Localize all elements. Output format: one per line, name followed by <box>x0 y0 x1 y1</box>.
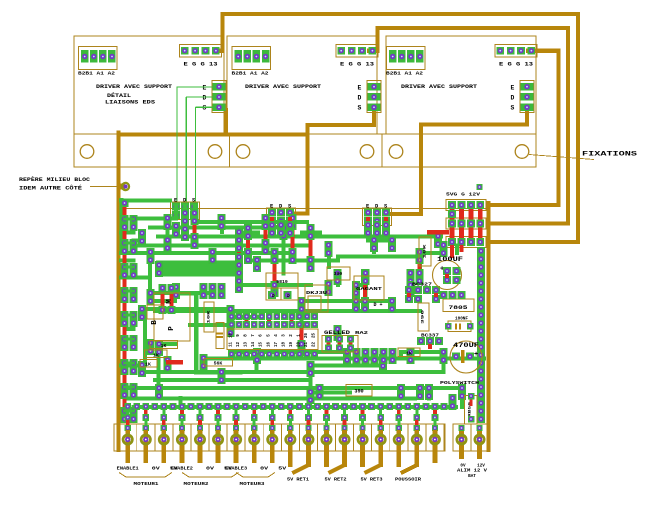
svg-text:22: 22 <box>313 342 317 348</box>
svg-text:MOTEUR1: MOTEUR1 <box>134 481 159 487</box>
svg-text:P: P <box>168 326 176 331</box>
pad column x=167.5 <box>164 214 172 372</box>
main board top edge <box>119 208 489 210</box>
note REPERE MILIEU BLOC <box>19 176 121 192</box>
pad column x=142 <box>138 229 146 377</box>
labels ENABLE 0V 5V for motor groups <box>117 467 287 472</box>
svg-text:S: S <box>203 105 207 112</box>
mounting hole 1 <box>80 145 94 159</box>
label DETAIL LIAISONS EDS <box>105 92 155 106</box>
svg-text:0V: 0V <box>152 467 161 472</box>
svg-text:IDEM AUTRE CÔTÉ: IDEM AUTRE CÔTÉ <box>19 185 82 192</box>
svg-text:470UF: 470UF <box>453 342 479 350</box>
pad column x=365 <box>361 269 369 313</box>
board pad group EDS1 <box>171 198 200 220</box>
svg-text:S: S <box>358 105 362 112</box>
pad column x=290 <box>286 217 294 237</box>
wire module3 13-pin to power connector (inner loop) <box>489 51 559 205</box>
svg-text:GAGANT: GAGANT <box>356 286 382 292</box>
IC U1 DIP socket <box>227 321 318 357</box>
pad column x=212.5 <box>209 283 217 299</box>
red links below power connector <box>450 245 464 258</box>
pad column A x=124.5 <box>121 199 129 423</box>
pad column x=410.5 <box>407 281 415 297</box>
component DKJ3U <box>305 285 328 312</box>
pad column x=462 <box>458 384 466 400</box>
label DRIVER AVEC SUPPORT module 3 <box>401 84 478 90</box>
pad column x=301.5 <box>298 297 306 356</box>
svg-text:390: 390 <box>422 309 426 324</box>
resistor 1K (c) <box>140 360 157 368</box>
svg-text:5V RET1: 5V RET1 <box>287 477 309 483</box>
svg-text:0V: 0V <box>206 467 215 472</box>
pad column x=171.5 <box>168 284 176 314</box>
connector EDS module 2 <box>358 81 382 113</box>
svg-text:1K: 1K <box>406 351 412 357</box>
svg-text:5V RET3: 5V RET3 <box>361 477 383 483</box>
svg-text:14: 14 <box>252 342 256 348</box>
svg-text:DRIVER AVEC SUPPORT: DRIVER AVEC SUPPORT <box>401 84 478 90</box>
labels power input <box>457 464 488 480</box>
green wire D to board <box>186 97 212 206</box>
pad column x=239 <box>235 228 243 293</box>
svg-text:E G G 13: E G G 13 <box>184 62 218 68</box>
svg-text:D: D <box>511 95 515 102</box>
pad column x=292.5 <box>289 214 297 264</box>
svg-text:390: 390 <box>334 271 343 277</box>
svg-text:10: 10 <box>230 333 234 339</box>
bracket and label MOTEUR1 <box>119 473 172 488</box>
label 5V RET1 <box>287 477 309 483</box>
bottom pads row y=407 <box>124 403 447 410</box>
pad column right edge x=481 <box>477 247 485 423</box>
pad column x=194.5 <box>191 209 199 249</box>
label 5V RET2 <box>325 477 347 483</box>
fuse RB50 vertical <box>465 393 478 424</box>
svg-text:ENABLE2: ENABLE2 <box>171 467 193 472</box>
svg-text:POLYSWITCH: POLYSWITCH <box>440 380 479 386</box>
pad column x=356.5 <box>353 348 361 364</box>
capacitor 470UF <box>450 341 482 373</box>
label POLYSWITCH <box>440 380 479 386</box>
red horizontal links <box>166 230 449 365</box>
connector B2B1A1A2 module 2 <box>232 47 271 77</box>
pad column x=221.5 <box>218 214 226 384</box>
mounting hole 3 <box>236 145 250 159</box>
mounting strip outline <box>74 134 536 167</box>
strip top pads y=428 <box>125 420 438 431</box>
svg-text:FIXATIONS: FIXATIONS <box>582 151 637 159</box>
svg-text:DKJ3U: DKJ3U <box>306 290 327 296</box>
pad column x=230.5 <box>227 305 235 337</box>
svg-text:7805: 7805 <box>449 304 469 311</box>
pad column x=212.5 <box>209 248 217 299</box>
pads above IC <box>228 313 318 320</box>
svg-text:17: 17 <box>275 342 279 348</box>
svg-text:E: E <box>358 85 362 92</box>
svg-text:ALIM 12 V: ALIM 12 V <box>457 469 488 474</box>
svg-text:DRIVER AVEC SUPPORT: DRIVER AVEC SUPPORT <box>96 84 173 90</box>
pad column x=377 <box>373 221 381 237</box>
svg-text:B2B1 A1 A2: B2B1 A1 A2 <box>78 71 115 77</box>
svg-text:11: 11 <box>230 342 234 348</box>
svg-text:B2B1 A1 A2: B2B1 A1 A2 <box>386 71 423 77</box>
svg-text:390: 390 <box>354 389 363 395</box>
pad column x=443.5 <box>440 241 448 364</box>
pad column x=410.5 <box>407 269 415 297</box>
svg-text:D +: D + <box>373 302 382 308</box>
label 5V RET3 <box>361 477 383 483</box>
pad column x=401 <box>397 384 405 400</box>
red links above IC <box>245 316 294 321</box>
power connector 5VG G 12V <box>446 184 486 248</box>
pad column x=429 <box>425 384 433 400</box>
pad column x=265.5 <box>262 214 270 255</box>
svg-text:POUSSOIR: POUSSOIR <box>395 477 421 483</box>
resistor 390 (top) <box>327 267 350 280</box>
svg-text:D: D <box>358 95 362 102</box>
wire module1 13-pin to power connector (outer loop) <box>215 14 578 242</box>
pad column x=374 <box>370 236 378 252</box>
driver module 3 outline <box>386 36 536 134</box>
board pad group EDS3 <box>363 204 392 226</box>
pad column x=383.5 <box>380 348 388 364</box>
note FIXATIONS <box>529 151 637 160</box>
svg-text:25: 25 <box>313 333 317 339</box>
resistor 390 vertical <box>418 303 429 331</box>
component GELLED RA2 <box>322 330 369 352</box>
pad column x=386 <box>382 217 390 237</box>
bracket and label MOTEUR2 <box>182 473 239 488</box>
pad column x=438 <box>434 232 442 248</box>
svg-text:16: 16 <box>267 342 271 348</box>
svg-text:BAT: BAT <box>468 474 476 479</box>
pad column x=283.5 <box>280 224 288 240</box>
pad column x=150.5 <box>147 248 155 355</box>
connector B2B1A1A2 module 3 <box>386 47 425 77</box>
pad column x=159 <box>155 261 163 400</box>
driver module 1 outline <box>74 36 224 134</box>
transistor block M P <box>147 293 190 341</box>
mounting hole 5 <box>389 145 403 159</box>
svg-text:S: S <box>511 105 515 112</box>
mounting hole 4 <box>360 145 374 159</box>
resistor 10K vertical (left) <box>204 302 214 332</box>
svg-text:E: E <box>511 85 515 92</box>
svg-text:MOTEUR3: MOTEUR3 <box>240 481 265 487</box>
pad column x=287.5 <box>284 291 292 299</box>
svg-text:5819: 5819 <box>276 279 288 285</box>
regulator 7805 <box>440 291 474 311</box>
svg-text:D: D <box>272 294 275 299</box>
pad column x=176 <box>172 222 180 299</box>
svg-text:18: 18 <box>282 342 286 348</box>
resistor 1K (right) <box>398 348 420 357</box>
svg-text:LIAISONS EDS: LIAISONS EDS <box>105 100 155 106</box>
pad column x=365.5 <box>362 269 370 285</box>
svg-text:+: + <box>474 351 478 359</box>
svg-text:ENABLE1: ENABLE1 <box>117 467 139 472</box>
connector EDS module 3 <box>511 81 535 113</box>
svg-text:5V: 5V <box>278 467 287 472</box>
pad column x=272 <box>268 291 276 299</box>
svg-text:56K: 56K <box>214 360 223 366</box>
pad column x=452.5 <box>449 394 457 410</box>
svg-text:1K: 1K <box>161 343 167 349</box>
green signal traces (top copper) <box>121 200 484 419</box>
pads GELLED <box>325 336 354 352</box>
resistor 56K <box>204 359 233 367</box>
svg-text:10K: 10K <box>208 309 212 323</box>
capacitor C left <box>216 323 224 349</box>
svg-text:0V: 0V <box>260 467 269 472</box>
label DRIVER AVEC SUPPORT module 2 <box>245 84 322 90</box>
pad column x=239 <box>235 236 243 269</box>
svg-text:12: 12 <box>237 342 241 348</box>
svg-text:ENABLE3: ENABLE3 <box>225 467 247 472</box>
pad column x=392 <box>388 236 396 313</box>
bottom connector big pads and legs <box>123 430 439 473</box>
svg-text:19: 19 <box>290 342 294 348</box>
pad column x=419.5 <box>416 269 424 285</box>
pad column x=383 <box>379 354 387 370</box>
bracket and label MOTEUR3 <box>236 473 275 488</box>
pad column x=328.5 <box>325 241 333 296</box>
pad column x=337.5 <box>334 269 342 341</box>
resistor 1K (a) <box>150 341 178 349</box>
bottom pads row y=417.5 with links <box>124 409 438 421</box>
svg-text:M: M <box>166 299 174 304</box>
wire right board edge bus <box>486 203 490 450</box>
diode pair 5819 <box>266 273 298 300</box>
resistor 1K (b) <box>145 350 167 358</box>
green wire E to board <box>177 87 212 206</box>
svg-text:B: B <box>151 320 159 325</box>
pad column x=257 <box>253 256 261 364</box>
svg-text:E: E <box>203 85 207 92</box>
label POUSSOIR <box>395 477 421 483</box>
repere pad on left bus <box>117 183 129 190</box>
svg-text:DÉTAIL: DÉTAIL <box>107 92 131 99</box>
svg-text:21: 21 <box>305 342 309 348</box>
pad column x=420 <box>416 384 424 400</box>
pad column x=368 <box>364 217 372 237</box>
pad column x=374.5 <box>371 348 379 364</box>
connector EDS module 1 <box>203 81 227 113</box>
component GAGANT <box>354 276 384 308</box>
pad column x=310.5 <box>307 224 315 404</box>
pad column x=301.5 <box>298 340 306 356</box>
power input connector 0V 12V <box>453 424 489 459</box>
pad column x=419.5 <box>416 248 424 285</box>
pad column B x=133.5 <box>130 215 138 423</box>
pad column x=248 <box>244 224 252 264</box>
wire module2 13-pin to power connector (middle loop) <box>369 28 568 224</box>
resistor 10K vertical (right) <box>419 237 431 266</box>
pad column x=203.5 <box>200 283 208 370</box>
svg-text:13: 13 <box>245 342 249 348</box>
connector B2B1A1A2 module 1 <box>78 47 117 77</box>
svg-text:1K: 1K <box>153 352 159 358</box>
svg-text:D: D <box>203 95 207 102</box>
svg-text:B2B1 A1 A2: B2B1 A1 A2 <box>232 71 269 77</box>
resistor 390 (bottom) <box>346 385 372 397</box>
svg-text:1K: 1K <box>145 361 151 367</box>
pad column x=281 <box>277 221 285 237</box>
svg-text:5VG G 12V: 5VG G 12V <box>446 192 480 198</box>
pad column x=162.5 <box>159 284 167 314</box>
pad column x=274.5 <box>271 248 279 297</box>
pad column x=410.5 <box>407 348 415 364</box>
svg-text:E G G 13: E G G 13 <box>499 62 533 68</box>
pad column x=356 <box>352 281 360 313</box>
transistor BC327 <box>405 282 440 303</box>
green wire S to board <box>196 107 213 206</box>
svg-text:D: D <box>287 294 290 299</box>
board pad group EDS2 <box>267 204 296 226</box>
svg-text:100UF: 100UF <box>437 256 463 264</box>
svg-text:15: 15 <box>260 342 264 348</box>
svg-text:REPÈRE MILIEU BLOC: REPÈRE MILIEU BLOC <box>19 176 90 183</box>
svg-text:5V RET2: 5V RET2 <box>325 477 347 483</box>
pad column x=347 <box>343 348 351 364</box>
svg-text:E G G 13: E G G 13 <box>340 62 374 68</box>
svg-text:26: 26 <box>305 333 309 339</box>
capacitor 100NF <box>445 318 473 332</box>
pad column x=272 <box>268 217 276 237</box>
svg-text:10K: 10K <box>424 243 428 258</box>
connector E G G 13 #3 <box>495 45 537 68</box>
mounting hole 6 <box>515 145 529 159</box>
mounting hole 2 <box>208 145 222 159</box>
connector E G G 13 #1 <box>180 45 222 68</box>
green links between left columns <box>125 219 134 411</box>
label DRIVER AVEC SUPPORT module 1 <box>96 84 173 90</box>
connector E G G 13 #2 <box>336 45 378 68</box>
wire left board edge bus <box>116 133 120 451</box>
capacitor 100UF <box>433 256 464 290</box>
pad column x=365.5 <box>362 348 370 364</box>
wire module3 S pin to board EDS3 <box>389 111 527 214</box>
driver module 2 outline <box>227 36 377 134</box>
wire module1 S pin to left bus <box>119 110 308 135</box>
svg-text:DRIVER AVEC SUPPORT: DRIVER AVEC SUPPORT <box>245 84 322 90</box>
wire module2 S pin to board EDS2 <box>294 109 374 214</box>
svg-text:20: 20 <box>297 342 301 348</box>
pad column x=185 <box>181 209 189 241</box>
pad column x=392.5 <box>389 348 397 364</box>
bottom connector strip outline <box>114 424 445 451</box>
transistor BC337 <box>417 333 443 350</box>
svg-text:MOTEUR2: MOTEUR2 <box>184 481 209 487</box>
pad column x=319.5 <box>316 384 324 400</box>
